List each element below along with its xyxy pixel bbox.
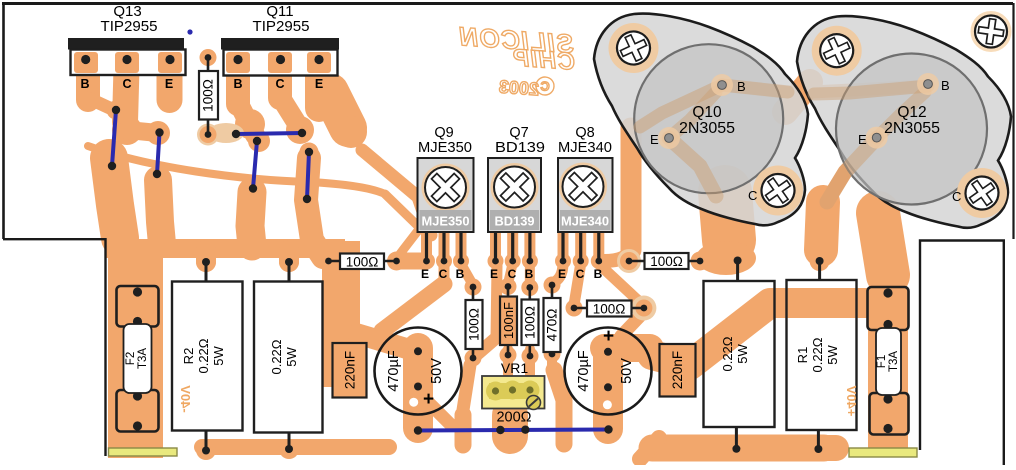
resistor R2 0.22ohm 5W	[172, 258, 243, 455]
wire: board outline top edge	[2, 2, 1013, 5]
svg-text:470µF: 470µF	[386, 350, 402, 392]
resistor 100ohm horizontal right	[631, 253, 699, 269]
svg-text:B: B	[456, 267, 465, 281]
wire: blob trace under Q13 left	[109, 158, 120, 238]
svg-text:BD139: BD139	[495, 140, 545, 156]
svg-text:MJE340: MJE340	[558, 140, 612, 156]
svg-text:F2: F2	[125, 352, 137, 365]
wire: stems into VR1 top	[503, 349, 513, 375]
svg-text:5W: 5W	[825, 345, 840, 365]
node: R1 bottom pad	[808, 439, 828, 459]
wire: band A from Q10 E down to pad row	[621, 128, 642, 250]
wire: VR1 bottom band	[492, 415, 528, 436]
svg-text:E: E	[490, 267, 498, 281]
svg-text:5W: 5W	[284, 347, 299, 367]
svg-text:5W: 5W	[735, 344, 750, 364]
svg-text:B: B	[525, 267, 534, 281]
svg-text:100Ω: 100Ω	[523, 306, 538, 339]
svg-text:T3A: T3A	[137, 348, 149, 369]
svg-text:BD139: BD139	[495, 215, 535, 229]
wire: Q8 B diagonal to 100ohm-mid right pad	[599, 264, 644, 306]
svg-text:C: C	[748, 188, 757, 203]
svg-text:50V: 50V	[429, 358, 445, 384]
fuse F1 T3A	[868, 287, 909, 435]
svg-text:2N3055: 2N3055	[679, 120, 735, 137]
wire: jumper W5	[307, 152, 309, 199]
svg-text:E: E	[165, 77, 173, 91]
svg-text:2003: 2003	[498, 77, 539, 100]
wire: vertical band right of 0.22-left	[322, 241, 360, 387]
svg-text:+: +	[603, 326, 614, 347]
svg-text:C: C	[275, 77, 284, 91]
wire: jumper W1	[112, 110, 116, 166]
transistor Q13 (TIP2955)	[68, 3, 186, 91]
svg-text:220nF: 220nF	[343, 351, 358, 389]
svg-text:R2: R2	[181, 348, 196, 365]
wire: inter-body bright band	[785, 82, 810, 112]
svg-text:2N3055: 2N3055	[884, 120, 940, 137]
node: left cap top pad	[408, 341, 429, 362]
wire: Q9 B to 100ohm1 top	[461, 263, 474, 285]
wire: jumper W3	[236, 133, 302, 134]
resistor R1 0.22ohm 5W (transparent)	[787, 257, 857, 453]
wire: left cap vertical band	[403, 348, 433, 428]
trimpot VR1 200ohm	[482, 360, 545, 426]
wire: Q7 B to 100ohm2 top	[525, 263, 535, 285]
fuse F2 T3A	[117, 286, 159, 432]
svg-text:+: +	[423, 389, 434, 410]
transistor Q8 (MJE340)	[558, 125, 613, 259]
node: mid resistor bottom pads	[465, 350, 482, 367]
svg-text:100nF: 100nF	[501, 302, 516, 339]
svg-text:B: B	[941, 78, 950, 93]
svg-text:MJE350: MJE350	[418, 140, 472, 156]
node: tan halo 100ohm-right left pad	[617, 249, 641, 273]
wire: Q7 E band down to 100ohm bottom	[496, 266, 497, 338]
wire: F1 vertical band	[868, 295, 908, 448]
wire: link 100ohm-left right pad to Q9 E	[397, 253, 427, 270]
resistor 100ohm vertical between Q13 and Q11	[199, 49, 218, 138]
wire: board outline right notch rectangle	[920, 241, 1004, 466]
wire: F2 vertical band	[108, 239, 163, 458]
node: R2 top pad	[196, 252, 216, 272]
capacitor 220nF right	[660, 344, 696, 397]
connector yellow strip left	[109, 448, 178, 456]
wire: Q8 C diagonal to 100ohm-mid left pad	[574, 264, 581, 305]
svg-text:TIP2955: TIP2955	[101, 18, 158, 35]
svg-text:T3A: T3A	[888, 351, 900, 372]
jumper wires (blue links)	[112, 110, 609, 431]
node: 100ohm-mid pads	[566, 300, 583, 317]
node: tan halo around 100ohm jumper pad	[208, 123, 244, 143]
wire: 100ohm1 bottom down left of VR1	[463, 365, 470, 410]
svg-text:E: E	[558, 267, 566, 281]
resistor 100ohm horizontal left	[330, 254, 395, 270]
svg-text:C: C	[952, 189, 961, 204]
wire: under-body trace Q10 B right to Q12 B	[722, 85, 928, 93]
svg-text:0.22Ω: 0.22Ω	[269, 339, 284, 374]
svg-text:TIP2955: TIP2955	[253, 18, 310, 35]
wire: Q11 E finger blob	[305, 68, 333, 108]
svg-text:C: C	[540, 79, 550, 94]
screw top right corner	[973, 13, 1010, 50]
svg-text:220nF: 220nF	[670, 351, 685, 389]
transistor Q9 (MJE350)	[418, 125, 474, 259]
connector yellow strip right	[849, 448, 917, 457]
capacitor 100nF	[500, 283, 517, 358]
svg-text:5W: 5W	[211, 346, 226, 366]
wire: Q13 B finger trace	[76, 68, 100, 100]
node: jumper pad under Q13 B	[107, 101, 126, 120]
svg-text:Q12: Q12	[897, 104, 926, 121]
capacitor 470uF 50V left	[375, 328, 462, 415]
pads row under driver transistors	[325, 232, 703, 311]
wire: bottom-right long band	[652, 435, 824, 462]
transistor Q10 (2N3055 TO-3)	[594, 14, 808, 226]
svg-text:R1: R1	[795, 347, 810, 364]
wire: under-body trace Q10 E down	[669, 138, 716, 198]
svg-text:100Ω: 100Ω	[650, 254, 683, 269]
svg-text:Q10: Q10	[692, 104, 722, 121]
svg-text:200Ω: 200Ω	[496, 410, 531, 426]
svg-text:-40V: -40V	[178, 385, 193, 413]
wire: finger below Q11 C jumper	[244, 179, 263, 198]
wire: jumper W2	[157, 133, 160, 175]
wire: Q13 E finger trace	[157, 68, 183, 100]
wire: band D from Q12 C down to F1	[878, 213, 888, 275]
wire: board outline right edge	[1012, 3, 1014, 239]
wire: jumper W6 long bottom link	[418, 430, 609, 431]
node: 100ohm-left left pad	[319, 252, 338, 271]
wire: Q13 C finger trace	[125, 68, 127, 122]
svg-text:C: C	[576, 267, 585, 281]
wire: board outline left edge	[2, 3, 5, 239]
svg-text:E: E	[315, 77, 323, 91]
wire: Q11 C finger trace	[268, 68, 292, 98]
svg-text:0.22Ω: 0.22Ω	[810, 337, 825, 372]
svg-text:E: E	[858, 132, 867, 147]
transistor Q11 (TIP2955)	[221, 3, 339, 91]
wire: finger from jumper pad down to 100ohm-left pad	[300, 143, 319, 162]
svg-text:B: B	[80, 77, 89, 91]
node: 0.22-left top pad	[279, 252, 299, 272]
resistor 100ohm horizontal mid (above right cap)	[575, 301, 643, 317]
svg-text:C: C	[508, 267, 517, 281]
wire: 100ohm-mid right pad down to right cap top	[621, 312, 644, 336]
wire: diagonal Q9 C/E down to cap blob	[382, 284, 444, 331]
svg-text:+40V: +40V	[844, 385, 859, 416]
wire: band B from Q10 C down	[725, 192, 729, 240]
node: 0.22-left bottom pad	[279, 439, 299, 459]
wire: Q7 C to 100nF top	[508, 263, 513, 284]
svg-text:B: B	[233, 77, 242, 91]
svg-text:B: B	[737, 79, 746, 94]
wire: blob trace under Q13 right	[158, 180, 162, 244]
node: small blue mark top	[187, 29, 192, 34]
node: right cap pads	[598, 342, 619, 363]
wire: band C from Q12 E down to R1 top	[821, 202, 823, 250]
wire: cap bottom to VR1-left stub	[424, 398, 450, 424]
node: 100ohm-left right pad	[387, 252, 406, 271]
wire: top horizontal band left side	[105, 239, 345, 258]
node: left cap bottom pad	[408, 377, 429, 398]
wire: Q8 E arch to 470ohm top	[552, 263, 563, 284]
wire: jumper W4	[253, 141, 257, 189]
svg-text:Q7: Q7	[509, 125, 528, 141]
svg-text:470µF: 470µF	[576, 350, 592, 392]
svg-text:MJE350: MJE350	[422, 215, 470, 229]
svg-text:0.22Ω: 0.22Ω	[196, 338, 211, 373]
wire: bottom-left long band	[202, 439, 389, 455]
node: R2 bottom pad	[196, 440, 216, 460]
svg-text:B: B	[594, 267, 603, 281]
node: mid resistor top pads	[465, 279, 482, 296]
wire: Q11 B finger trace	[226, 68, 250, 104]
resistor 0.22ohm 5W left	[254, 258, 323, 453]
svg-text:100Ω: 100Ω	[593, 302, 626, 317]
svg-text:100Ω: 100Ω	[201, 79, 216, 112]
node: tan halo 100ohm-mid right pad	[631, 296, 656, 321]
wire: thin meandering bias trace	[88, 146, 385, 194]
svg-text:VR1: VR1	[501, 360, 528, 376]
vertical resistor cluster: 100ohm second	[522, 284, 539, 359]
wire: under-body trace Q10 B to band A	[634, 85, 722, 130]
transistor Q12 (2N3055 TO-3)	[797, 16, 1011, 228]
transistor Q7 (BD139)	[488, 125, 545, 259]
svg-text:50V: 50V	[619, 358, 635, 384]
svg-text:CHIP: CHIP	[511, 44, 576, 75]
svg-text:Q8: Q8	[575, 125, 594, 141]
svg-text:0.22Ω: 0.22Ω	[720, 336, 735, 371]
wire: right cap vertical band	[593, 352, 623, 429]
svg-text:MJE340: MJE340	[561, 215, 609, 229]
resistor 470ohm	[544, 282, 561, 358]
svg-text:C: C	[122, 77, 131, 91]
node: pad of 100ohm bottom	[199, 126, 217, 144]
wire: 470ohm chain right of VR1	[554, 370, 564, 444]
wire: board outline left notch	[3, 239, 106, 456]
wire: under-body trace Q12 E down	[826, 138, 877, 203]
silkscreen: mirrored SILICON CHIP 2003 logo	[457, 21, 576, 99]
resistor 0.22ohm 5W right (transparent)	[704, 257, 775, 453]
svg-text:Q9: Q9	[434, 125, 453, 141]
svg-text:E: E	[650, 132, 659, 147]
capacitor 220nF left	[333, 343, 367, 398]
wire: band behind 220nF-right going up-right through 0.22	[652, 303, 872, 365]
svg-text:470Ω: 470Ω	[545, 309, 560, 342]
wire: diagonal from Q11 E blob to Q9	[362, 150, 431, 235]
svg-text:100Ω: 100Ω	[346, 255, 379, 270]
capacitor 470uF 50V right	[565, 326, 652, 415]
node: 0.22-right bottom pad	[726, 439, 746, 459]
node: 100ohm-right right pad	[691, 252, 710, 271]
svg-text:E: E	[421, 267, 429, 281]
svg-text:100Ω: 100Ω	[467, 308, 482, 341]
svg-text:C: C	[439, 267, 448, 281]
vertical resistor cluster: 100ohm	[466, 284, 483, 362]
svg-text:F1: F1	[876, 355, 888, 368]
